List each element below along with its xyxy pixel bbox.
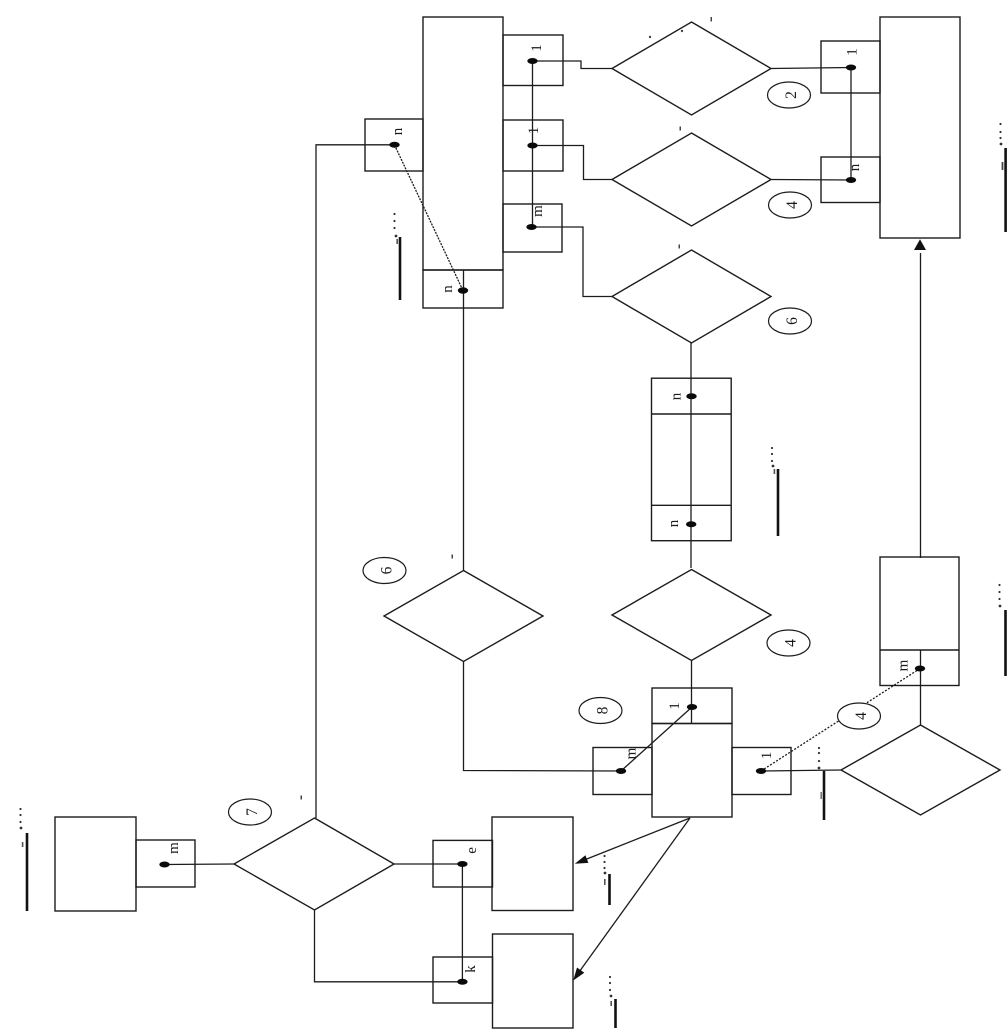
attribute box E2a (label 1)	[821, 41, 880, 93]
entity E1 (large top-center rectangle)	[423, 17, 503, 270]
label L3 dots	[999, 123, 1001, 125]
svg-text:6: 6	[784, 317, 801, 325]
svg-text:n: n	[440, 285, 456, 293]
label L1 near E1	[399, 237, 402, 300]
dot at attribute m (E1R3)	[526, 224, 536, 230]
svg-text:k: k	[463, 965, 479, 973]
svg-text:7: 7	[244, 808, 261, 816]
number bubbles	[229, 82, 881, 825]
svg-text:6: 6	[379, 566, 396, 574]
svg-text:1: 1	[667, 702, 683, 710]
label L6 dots	[603, 855, 605, 857]
wire dot E2a to dot E2b	[850, 68, 852, 181]
label L7 near arrow to E7	[614, 999, 617, 1028]
label L2 near E3	[777, 469, 780, 536]
svg-text:m: m	[166, 842, 182, 854]
attribute box E5a (label m)	[136, 840, 195, 887]
dot at attribute 1 (E1R1)	[527, 58, 537, 64]
dot at attribute 1 (E2a)	[846, 65, 856, 71]
wire diamond D2 to dot E2b	[771, 179, 853, 182]
label L8 below wire at E4R	[823, 771, 826, 820]
dot at attribute 1 (E1R2)	[527, 143, 537, 149]
svg-text:2: 2	[783, 91, 800, 99]
tiny specks near diamonds (illegible text remnants)	[301, 17, 713, 800]
svg-text:m: m	[530, 205, 546, 217]
attribute box E4L (label m)	[593, 748, 652, 795]
label L8 dots	[818, 747, 820, 749]
wire diamond D4 to E4top dot	[691, 661, 693, 724]
label L5 dots	[19, 808, 21, 810]
wire dot E1R1 to dot E1R2 to dot E1R3	[532, 61, 534, 227]
arrowhead at E6	[575, 855, 589, 864]
entity E6	[492, 817, 573, 911]
connection dots	[159, 58, 925, 985]
entity E3 (middle rectangle with two sections)	[652, 378, 732, 541]
dot at attribute n (E3 bottom)	[686, 521, 696, 527]
dot at attribute n (E2b)	[846, 177, 856, 183]
attribute box E4R (label 1)	[732, 748, 791, 795]
wire diamond D3 to E3 to diamond D4	[690, 343, 692, 568]
wire diamond D5 to dot E4L	[464, 662, 622, 772]
wire diamond D1 to dot E2a	[771, 68, 851, 69]
wire arrow E4 to E7	[578, 818, 690, 974]
relationship diamond D7	[841, 725, 1000, 815]
dot at attribute e (E6a)	[457, 861, 467, 867]
dot at attribute m (E5a)	[159, 862, 169, 868]
wire dot E5a to diamond D6	[165, 863, 235, 866]
wire diamond D6 to dot E6a	[394, 863, 462, 865]
entity E2c (right rectangle with divider)	[880, 557, 959, 686]
wire dot E4R to diamond D7	[761, 770, 841, 771]
label L7 dots	[609, 976, 611, 978]
relationship diamond D3	[612, 250, 771, 343]
svg-text:4: 4	[783, 639, 800, 647]
bubble 8 ellipse	[579, 698, 622, 724]
relationship diamond D6	[234, 818, 394, 910]
arrowhead into E2	[914, 239, 926, 250]
attribute box E6a (label e)	[433, 840, 493, 887]
bubble 4a ellipse	[769, 192, 812, 218]
wire arrow E4 to E6	[583, 818, 690, 861]
wire dot E1R1 to diamond D1	[533, 61, 613, 69]
bubble 2 ellipse	[768, 82, 811, 108]
dot at attribute n (E1L)	[389, 142, 399, 148]
bubble 7 ellipse	[229, 799, 272, 825]
wire arrow line into E2 bottom	[920, 253, 922, 558]
dot at attribute 1 (E4top)	[687, 704, 697, 710]
attribute box E1R3 (label m)	[503, 204, 562, 252]
relationship diamond D2	[612, 133, 771, 226]
attribute box E1R2 (label 1)	[503, 120, 563, 171]
dot at attribute n (E3 top)	[686, 393, 696, 399]
dot at attribute n (E1a)	[458, 287, 468, 293]
relationship diamond D1	[612, 22, 771, 115]
entity E7	[493, 934, 574, 1028]
dot at attribute m (E2c)	[915, 666, 925, 672]
attribute letter labels	[166, 44, 912, 973]
wire diamond D6 bottom to dot E7a	[315, 910, 463, 982]
attribute box E1L (left of E1, label n)	[365, 119, 423, 171]
label L2 dots	[771, 447, 773, 449]
wire dot E1R3 to diamond D3	[532, 227, 613, 297]
bubble 6b ellipse	[363, 558, 406, 584]
wire diagonal dot E1L to dot E1a (dotted)	[395, 145, 464, 291]
svg-text:m: m	[896, 659, 912, 671]
label L6 near arrow to E6	[608, 874, 611, 905]
svg-text:e: e	[464, 847, 480, 854]
svg-text:4: 4	[784, 201, 801, 209]
arrowhead at E7	[573, 968, 584, 981]
bubble 4c ellipse	[838, 703, 881, 729]
entity E2 (large top-right rectangle)	[880, 17, 960, 238]
svg-text:1: 1	[845, 48, 861, 56]
attribute box E4top (label 1)	[652, 688, 732, 724]
label L5 left of E5	[26, 833, 29, 911]
bubble 4b ellipse	[767, 630, 810, 656]
wire dot E6a to dot E7a	[461, 864, 463, 982]
dot at attribute k (E7a)	[457, 979, 467, 985]
svg-text:n: n	[847, 163, 863, 171]
bubble 6a ellipse	[769, 308, 812, 334]
svg-text:1: 1	[526, 127, 542, 135]
relationship diamond D5	[384, 571, 543, 662]
svg-text:8: 8	[595, 706, 612, 714]
wire dot E1a down to diamond D5	[463, 270, 465, 571]
label L3 right of E2	[1004, 148, 1007, 232]
attribute box E2b (label n)	[821, 157, 880, 203]
entity E4 (central rectangle)	[652, 724, 732, 818]
wire dot E1L to diamond D6 (long left path)	[316, 145, 395, 818]
svg-text:4: 4	[853, 712, 870, 720]
wire dashed dot E4R to dot E8m	[761, 669, 920, 772]
svg-text:n: n	[666, 519, 682, 527]
attribute box E1R1 (label 1)	[503, 35, 563, 86]
label L4 dots	[998, 584, 1000, 586]
svg-text:n: n	[669, 392, 685, 400]
svg-text:m: m	[624, 747, 640, 759]
svg-text:1: 1	[529, 44, 545, 52]
wire E2c divider through dot to diamond D7	[920, 650, 922, 725]
relationship diamond D4	[612, 570, 771, 661]
svg-text:1: 1	[759, 752, 775, 760]
entity E5 (bottom-left square)	[55, 817, 136, 911]
dot at attribute m (E4L)	[616, 768, 626, 774]
wire diagonal dot E4top to dot E4L	[621, 707, 692, 771]
dot at attribute 1 (E4R)	[756, 768, 766, 774]
attribute box E1a (bottom of E1, label n)	[423, 270, 503, 308]
wire dot E1R2 to diamond D2	[533, 146, 613, 180]
attribute box E7a (label k)	[433, 957, 493, 1003]
label L4 right of D7	[1004, 610, 1007, 676]
svg-text:n: n	[390, 127, 406, 135]
label L1 dots	[393, 213, 395, 215]
